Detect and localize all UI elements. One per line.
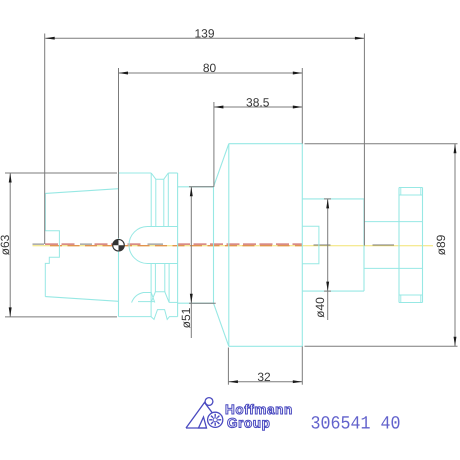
body right face	[301, 144, 303, 347]
disc left face	[398, 188, 400, 303]
ext line 139 right	[363, 34, 365, 246]
disc bottom chamfer line	[399, 294, 423, 296]
ext line 80 left	[118, 68, 120, 238]
arrow d51 top	[190, 187, 193, 197]
centerline orange dashes	[50, 245, 62, 247]
disc chamfer edge	[400, 295, 402, 303]
disc right face	[422, 188, 424, 303]
dim line d40	[327, 199, 329, 320]
arrow 139 left	[45, 37, 55, 40]
arrow 32 right	[293, 380, 303, 383]
ext stub d51 bottom	[189, 302, 216, 304]
flange right face	[177, 173, 179, 317]
svg-text:Group: Group	[227, 416, 271, 431]
neck top edge	[364, 221, 423, 223]
dim line 32	[228, 381, 302, 383]
body silhouette vertical	[228, 144, 230, 347]
arrow d51 bottom	[190, 294, 193, 304]
dim line 38.5	[214, 106, 302, 108]
centerline axis yellow	[33, 245, 434, 247]
arrow d40 bottom	[326, 282, 329, 292]
dim line d63	[9, 173, 11, 317]
arrow 38.5 right	[293, 106, 303, 109]
body bottom edge	[229, 345, 302, 347]
disc top chamfer line	[399, 194, 423, 196]
arrow d89 top	[454, 144, 457, 154]
HSK taper shank left face with notch	[45, 193, 59, 296]
ext line 139 left	[44, 34, 46, 245]
Hoffmann Group logo figure	[186, 398, 223, 428]
arrow 80 right	[293, 72, 303, 75]
svg-text:ø63: ø63	[0, 234, 12, 255]
body bottom chamfer	[214, 303, 229, 346]
neck bottom edge	[364, 267, 423, 269]
flange bottom edge with groove lips	[119, 310, 178, 320]
svg-text:38.5: 38.5	[246, 96, 270, 110]
svg-text:139: 139	[194, 26, 214, 40]
arrow 32 left	[228, 380, 238, 383]
arrow d40 top	[326, 199, 329, 209]
ext line d89 top	[305, 143, 458, 145]
d51 cylinder top edge	[178, 186, 214, 188]
ext line 32 left	[227, 348, 229, 385]
disc bottom edge	[399, 302, 423, 304]
dim line 139	[45, 37, 364, 39]
arrow d63 bottom	[9, 307, 12, 317]
ext line 38.5 left	[213, 102, 215, 187]
dim line 80	[119, 72, 303, 74]
blade bottom edge	[138, 301, 154, 303]
svg-text:80: 80	[203, 61, 217, 75]
ext stub d51 top	[189, 186, 214, 188]
shank top edge	[45, 189, 118, 194]
flange top edge right	[168, 172, 177, 174]
svg-text:ø89: ø89	[434, 234, 448, 255]
disc chamfer edge	[400, 188, 402, 196]
svg-text:32: 32	[257, 370, 271, 384]
arrow d63 top	[9, 173, 12, 183]
logo gear	[209, 414, 221, 426]
d40 shaft right face	[363, 199, 365, 291]
slot top edge	[148, 226, 178, 228]
arrow 38.5 left	[214, 106, 224, 109]
flange top edge left	[119, 172, 152, 174]
gripper slot rounded left end	[129, 227, 148, 264]
d40 shaft top edge	[302, 198, 364, 200]
dim line d89	[454, 144, 456, 347]
ext stub d40 top	[324, 198, 331, 200]
flange top V-groove	[151, 173, 168, 179]
ext line 32 right	[301, 346, 303, 384]
disc top edge	[399, 187, 423, 189]
arrow d89 bottom	[454, 337, 457, 347]
disc chamfer edge	[420, 188, 422, 196]
ext stub d40 bottom	[324, 290, 331, 292]
ext line 80-38.5 right upper	[301, 68, 303, 144]
ext line d89 bottom	[305, 345, 458, 347]
shaft bore rectangle	[302, 226, 319, 264]
d51 cylinder right edge	[213, 187, 215, 303]
body top chamfer	[214, 144, 229, 187]
ext line d63 bottom	[5, 316, 117, 318]
centerline red dashes	[45, 243, 58, 245]
slot bottom edge	[148, 263, 178, 265]
body top edge	[229, 143, 302, 145]
svg-text:ø40: ø40	[313, 297, 327, 318]
arrow 80 left	[119, 72, 129, 75]
shank bottom edge	[45, 297, 118, 302]
disc chamfer edge	[420, 295, 422, 303]
flange groove edge verticals upper	[150, 173, 152, 227]
centerline gray dashes	[33, 243, 45, 245]
flange lower inner edge	[169, 301, 178, 303]
d40 shaft bottom edge	[302, 290, 364, 292]
ext line d63 top	[5, 172, 117, 174]
drive-key blade detail	[132, 293, 155, 303]
flange left face	[118, 173, 120, 317]
svg-text:306541 40: 306541 40	[311, 413, 401, 434]
d51 cylinder bottom edge	[178, 302, 214, 304]
center of gravity symbol	[113, 239, 125, 251]
dim line d51	[190, 187, 192, 338]
svg-text:ø51: ø51	[179, 307, 193, 328]
arrow 139 right	[355, 37, 365, 40]
bottom groove key bump	[151, 292, 169, 303]
flange groove edge verticals lower	[150, 264, 152, 317]
